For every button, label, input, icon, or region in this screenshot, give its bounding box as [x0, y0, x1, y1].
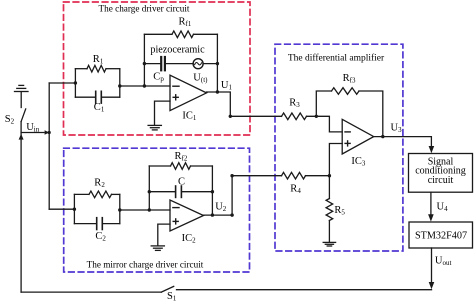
svg-text:IC2: IC2	[182, 233, 197, 245]
dashed box: differential amplifier (blue)	[275, 44, 403, 251]
wire: bottom rail right of S1	[177, 289, 432, 291]
svg-text:U4: U4	[437, 202, 449, 214]
wire: IC2 plus input to ground	[158, 224, 170, 245]
capacitor Cp	[160, 57, 162, 70]
wire: Rf3 feedback	[316, 91, 331, 116]
svg-text:Uin: Uin	[26, 122, 40, 134]
R2/C2 parallel combo frame	[73, 194, 75, 223]
resistor R1	[87, 65, 106, 72]
svg-text:R5: R5	[334, 205, 345, 217]
node U2 corner top	[230, 174, 233, 177]
wire: IC3 output / U3	[374, 137, 432, 149]
junction node R4/R5	[328, 174, 331, 177]
arrowhead up on left vertical	[19, 134, 24, 140]
wire: IC2 output up to R4 line	[204, 176, 282, 215]
svg-text:R3: R3	[289, 98, 300, 110]
svg-text:Cp: Cp	[153, 71, 164, 83]
wire: R5 to ground	[328, 221, 330, 243]
op-amp IC1	[170, 75, 207, 110]
wire: junction up to IC3 plus	[329, 144, 342, 176]
switch S1	[161, 286, 173, 292]
dashed box: charge driver circuit (red)	[64, 2, 251, 135]
ground (IC2 +)	[151, 246, 164, 251]
junction node U1 feedback	[216, 90, 219, 93]
wire: IC1 output	[207, 92, 282, 116]
wire/arrow Uout down to bottom rail	[431, 248, 433, 285]
wire: input rail vertical x=49	[48, 83, 50, 209]
wire: rail to R2C2	[49, 208, 74, 210]
ground (IC1 +)	[148, 125, 161, 129]
svg-text:circuit: circuit	[428, 175, 454, 186]
junction node C branch left	[148, 190, 151, 193]
svg-text:C: C	[178, 176, 185, 187]
wire: rail to R1C1	[49, 82, 75, 84]
wire: IC1 plus input to ground	[155, 101, 171, 125]
wire: piezo branch	[144, 63, 160, 65]
wire: R2C2 output to IC2 minus	[120, 209, 170, 211]
AC source U(t)	[193, 59, 203, 69]
arrowhead U3 down	[429, 146, 435, 153]
junction node at R2C2 input	[73, 208, 76, 211]
node U2 corner bottom	[230, 213, 233, 216]
resistor Rf1	[172, 31, 194, 38]
resistor R5	[326, 199, 333, 221]
wire: R4 to junction	[306, 175, 330, 177]
wire: left vertical from S2 down to bottom rail	[20, 122, 22, 293]
junction node at R1C1 output	[118, 84, 121, 87]
wire: R3 to IC3 minus with jog	[307, 116, 343, 132]
box: STM32F407	[409, 222, 473, 248]
svg-text:Rf2: Rf2	[175, 151, 188, 163]
wire: Uin horizontal with arrow into input rail	[21, 132, 44, 134]
junction node at R2C2 output	[118, 208, 121, 211]
R1/C1 parallel combo frame	[74, 69, 76, 98]
svg-text:R4: R4	[290, 183, 301, 195]
ground (top-left, above S2)	[15, 85, 29, 107]
wire: IC2 feedback right rail	[211, 166, 213, 215]
node U1 corner	[229, 115, 232, 118]
svg-text:S1: S1	[167, 291, 177, 303]
svg-text:Rf1: Rf1	[179, 17, 192, 29]
junction node U3 feedback	[381, 135, 384, 138]
box: Signal conditioning circuit	[409, 154, 473, 193]
wire: R1C1 output to IC1 minus	[120, 85, 170, 87]
resistor Rf2	[171, 163, 191, 170]
svg-text:C1: C1	[94, 102, 105, 114]
junction node IC2 inverting input	[148, 208, 151, 211]
wire: IC1 feedback left rail	[143, 34, 145, 86]
wire: IC1 feedback right rail	[216, 34, 218, 92]
capacitor C	[175, 186, 177, 197]
svg-text:The differential amplifier: The differential amplifier	[288, 53, 385, 64]
svg-text:Uout: Uout	[435, 256, 452, 268]
svg-text:The charge driver circuit: The charge driver circuit	[99, 3, 190, 13]
svg-text:piezoceramic: piezoceramic	[150, 44, 205, 55]
junction node R3/Rf3	[315, 115, 318, 118]
op-amp IC2	[170, 200, 204, 231]
svg-text:Rf3: Rf3	[343, 73, 356, 85]
svg-text:U(t): U(t)	[193, 72, 208, 84]
wire: IC2 feedback left rail	[148, 166, 150, 210]
capacitor C2	[74, 223, 96, 225]
svg-text:STM32F407: STM32F407	[415, 230, 467, 241]
junction node at R1C1 input	[74, 81, 77, 84]
wire/arrow U4	[430, 192, 432, 217]
resistor Rf3	[332, 88, 360, 95]
op-amp IC3	[342, 119, 374, 154]
resistor R4	[282, 172, 306, 179]
svg-text:The mirror charge driver circu: The mirror charge driver circuit	[87, 259, 204, 269]
wire: Rf2 top rail	[149, 165, 170, 167]
svg-text:S2: S2	[5, 114, 15, 126]
svg-text:U3: U3	[391, 122, 403, 134]
svg-text:U1: U1	[221, 80, 233, 92]
capacitor C1	[75, 96, 95, 98]
wire: C branch	[149, 191, 175, 193]
wire: Rf1 top rail	[144, 33, 172, 35]
resistor R3	[282, 113, 307, 120]
svg-text:C2: C2	[95, 231, 106, 243]
wire: bottom rail left of S1	[21, 291, 161, 293]
svg-text:IC1: IC1	[182, 110, 197, 122]
switch S2	[21, 109, 26, 122]
junction node piezo branch right	[216, 62, 219, 65]
junction node piezo branch left	[143, 62, 146, 65]
resistor R2	[89, 191, 112, 198]
svg-text:R2: R2	[94, 178, 105, 190]
junction node U2 feedback	[211, 213, 214, 216]
dashed box: mirror charge driver circuit (blue)	[64, 148, 250, 272]
svg-text:R1: R1	[93, 54, 104, 66]
svg-text:IC3: IC3	[351, 156, 366, 168]
ground (below R5)	[323, 242, 335, 246]
junction node C branch right	[211, 190, 214, 193]
arrowhead Uin right	[45, 130, 50, 135]
svg-text:U2: U2	[215, 201, 227, 213]
junction node IC1 inverting input	[143, 84, 146, 87]
wire: junction down to R5	[328, 176, 330, 199]
junction node Uin arrow tip on rail	[48, 131, 51, 134]
